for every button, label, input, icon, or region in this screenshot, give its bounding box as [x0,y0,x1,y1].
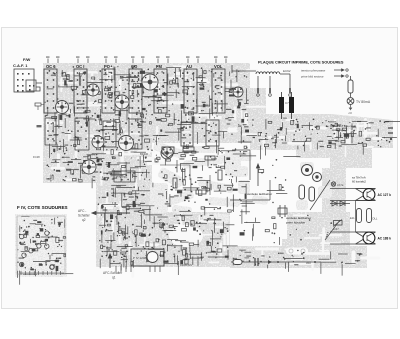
stubs above top edge [47,59,49,64]
svg-text:C.A.F. 1: C.A.F. 1 [13,63,28,68]
pentagon symbol [162,147,174,158]
small component bodies [109,95,112,98]
svg-text:AC 127 k: AC 127 k [378,193,392,197]
svg-text:c3: c3 [349,111,353,115]
IF block [103,121,116,147]
diode row [330,203,350,205]
driver transistor 2 [313,173,322,182]
svg-text:c60: c60 [306,261,311,265]
svg-text:F/W: F/W [23,57,31,62]
left margin stubs [35,103,41,106]
svg-text:TE: TE [143,156,147,160]
svg-text:OC 6: OC 6 [46,64,56,69]
svg-text:Schalter: Schalter [78,214,91,218]
F IV board parts [17,216,65,274]
pin dots [57,98,58,99]
svg-text:Ta+TB kontakt: Ta+TB kontakt [337,124,356,128]
interconnect wires [230,150,270,200]
svg-text:prise bild secteur: prise bild secteur [301,75,324,79]
capacitor C78 [279,97,284,113]
capacitor C79 [289,97,294,113]
white hole: module cutout [169,225,203,247]
svg-text:P IV 769: P IV 769 [116,175,127,179]
svg-text:GO: GO [131,64,138,69]
svg-text:1208-SN: 1208-SN [180,263,192,267]
wire between output transistors [355,201,357,233]
elcap [299,185,305,199]
svg-text:AFC -: AFC - [78,209,86,213]
IF block [129,119,142,149]
fuse [348,80,353,93]
coupling caps [357,209,362,223]
driver transistor [302,165,313,176]
wire segments [63,139,65,152]
IF block [181,122,193,146]
svg-text:verdeko ladlzainer: verdeko ladlzainer [247,192,272,196]
svg-text:AU: AU [186,64,192,69]
resistor R73 [183,147,194,151]
mains coil [256,72,280,74]
IF block [45,118,56,145]
svg-text:TV: TV [164,150,168,154]
svg-text:R 73: R 73 [183,143,189,147]
transistor [161,147,173,159]
svg-text:sa 78+7mA: sa 78+7mA [352,176,366,180]
svg-text:q2: q2 [82,218,86,222]
output transistor AC 127 k [356,189,376,201]
white slot with two pads [286,248,308,255]
svg-text:tension pferuwase: tension pferuwase [301,69,326,73]
transistor [87,84,99,96]
IF block [75,118,89,150]
svg-text:C17a: C17a [337,183,344,187]
svg-text:FM: FM [156,64,163,69]
svg-text:VOL: VOL [214,64,223,69]
PCB copper region (halftone) [43,63,393,268]
svg-text:prien fdzucker: prien fdzucker [286,221,305,225]
transistor [56,101,69,114]
module P IV 1208 [131,249,164,266]
leads [36,83,42,91]
bottom band parts [231,261,321,263]
resistor 1137 [334,221,343,226]
svg-text:DLL: DLL [373,217,378,221]
terminals [257,88,259,93]
svg-text:AFC-Schalter: AFC-Schalter [103,271,123,275]
svg-text:60 kHz: 60 kHz [337,129,347,133]
transistor [82,160,96,174]
svg-text:F IV, COTE SOUDURES: F IV, COTE SOUDURES [17,205,68,210]
output transistor AC 188 k [356,232,376,244]
band right-edge terminals [388,128,393,133]
svg-text:TV 80mA: TV 80mA [356,100,371,104]
module P IV 769 [114,171,135,182]
indicator C17a [331,182,335,186]
svg-text:E11: E11 [350,216,355,220]
svg-text:verdeko ladlzainer: verdeko ladlzainer [286,216,311,220]
F IV board region (halftone) [15,214,67,277]
svg-text:EC92: EC92 [283,69,291,73]
transistor [115,95,129,109]
svg-text:FC28: FC28 [33,155,40,159]
transistor [142,74,158,90]
small parts right-mid [280,205,285,217]
transistor [233,87,243,97]
svg-text:OC I: OC I [76,64,84,69]
svg-text:q1: q1 [112,276,116,280]
svg-text:PO: PO [104,64,111,69]
transistor [92,136,104,148]
lamp TV 80mA [347,98,354,105]
connector ticks below lower band [115,266,117,272]
svg-text:AC 188 k: AC 188 k [378,237,392,241]
transistor [119,136,134,151]
white slot right [352,251,356,266]
tiny label specks [137,125,141,126]
copper ribbons in open area [150,141,332,223]
svg-text:PLAQUE CIRCUIT IMPRIME, COTE S: PLAQUE CIRCUIT IMPRIME, COTE SOUDURES [258,60,344,65]
C.A.F. board outline [14,69,34,92]
svg-text:60 kontakt2: 60 kontakt2 [352,180,366,184]
misc bay parts [205,156,215,160]
white routing channels [175,66,185,69]
kontakt arrow [330,125,335,127]
IF block [206,120,219,146]
